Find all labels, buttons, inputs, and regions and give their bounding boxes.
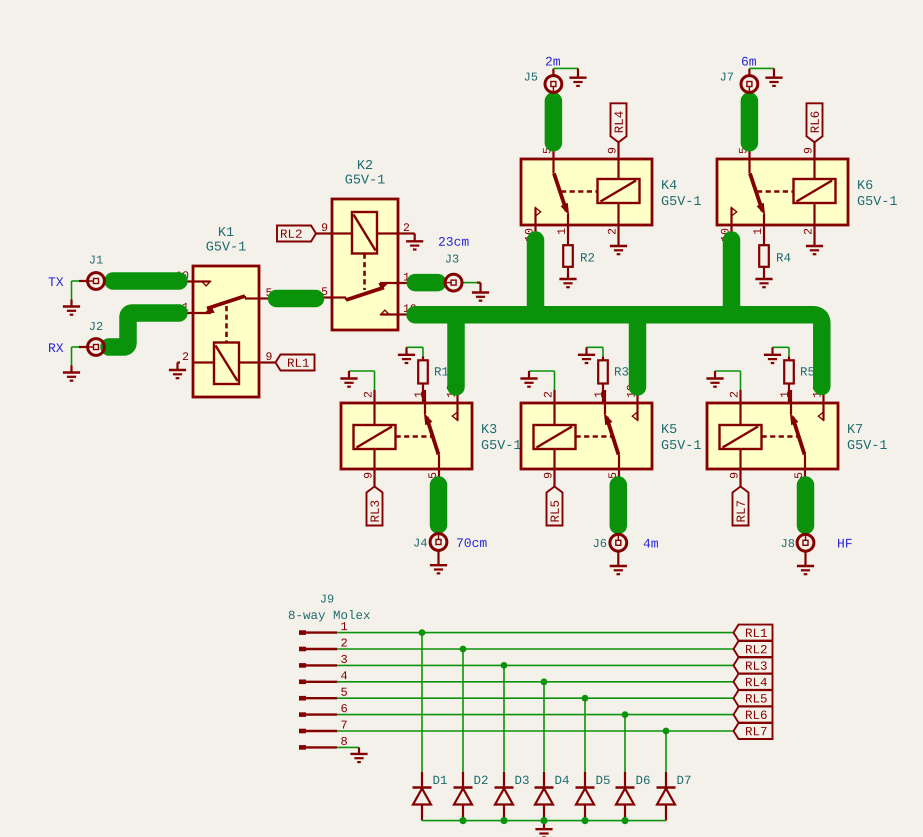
wire from net RL5 down to diode D5: [584, 698, 586, 772]
connector J9 pin 2: [299, 638, 347, 649]
net label 4m: [644, 539, 658, 548]
connector J9 pin 4: [299, 671, 347, 681]
resistor R1: [418, 357, 448, 404]
wire J1 to K1 pin 10 (thick): [113, 272, 179, 290]
wire diode common cathode bus: [422, 820, 666, 822]
net label 2m: [546, 57, 560, 66]
connector J9 pin 1: [299, 622, 347, 632]
junction at D2 on bottom bus: [459, 817, 466, 824]
wire J9 pin 8 to ground: [337, 746, 359, 748]
net label 6m: [742, 57, 756, 66]
ground at diode bus: [535, 821, 552, 837]
connector J4: [430, 534, 447, 551]
connector J9 pin 6: [299, 704, 347, 715]
wire and ground at J5 shield: [553, 68, 586, 86]
connector J5: [545, 76, 562, 93]
relay K1 body (G5V-1): [176, 266, 272, 397]
wire J2 to K1 pin 1 (thick): [109, 313, 179, 347]
wire bus down to K3 pin 10 (thick): [447, 315, 465, 387]
relay K6 body (G5V-1): [717, 146, 848, 241]
net label 23cm: [439, 237, 469, 246]
relay K4 body (G5V-1): [521, 146, 652, 241]
antenna bus: K2 pin 10 across to K7 pin 10 (thick): [415, 315, 822, 387]
wire and ground at R5 top: [764, 347, 789, 363]
ground at K4 pin 2: [610, 238, 627, 254]
label RL2 at K2 pin 9: [277, 226, 319, 242]
net label HF: [838, 539, 852, 548]
resistor R3: [598, 357, 628, 404]
wire bus up to K4 pin 10 (thick): [527, 240, 545, 315]
label RL3 at K3 pin 9: [367, 482, 383, 526]
net label 70cm: [457, 538, 487, 547]
label RL6 at K6 pin 9: [807, 103, 823, 146]
label RL7: [734, 723, 773, 739]
label RL2: [734, 641, 773, 657]
ground at J1 shield: [63, 300, 80, 315]
diode D4: [535, 772, 569, 821]
ground at J6 shield: [610, 552, 627, 574]
label RL6: [734, 707, 773, 723]
connector J7: [741, 76, 758, 93]
wire RX from J2: [72, 347, 88, 366]
junction at D5 on bottom bus: [581, 817, 588, 824]
connector name J4: [414, 539, 427, 547]
relay K7 body (G5V-1): [707, 385, 838, 482]
label RL1 at K1 pin 9: [272, 355, 315, 371]
reference designator K6 and value: [858, 180, 897, 205]
wire and ground at K5 pin 2: [520, 371, 554, 390]
reference designator K3 and value: [482, 424, 521, 449]
wire J5 to K4 pin 5 (thick): [545, 101, 563, 143]
wire and ground at K7 pin 2: [706, 371, 740, 390]
ground at J8 shield: [797, 552, 814, 574]
net label RX: [49, 343, 63, 352]
junction on RL6 wire: [622, 711, 629, 718]
wire J9 pin 2 to RL2: [337, 648, 734, 650]
label RL5: [734, 690, 773, 706]
junction on RL3 wire: [501, 662, 508, 669]
wire from net RL7 down to diode D7: [665, 731, 667, 772]
relay K3 body (G5V-1): [341, 385, 472, 482]
connector name J2: [90, 322, 103, 330]
wire from net RL3 down to diode D3: [503, 665, 505, 772]
junction on RL1 wire: [419, 629, 426, 636]
connector J9 pin 7: [299, 721, 347, 731]
wire J9 pin 3 to RL3: [337, 664, 734, 666]
resistor R4: [759, 238, 790, 272]
diode D6: [616, 772, 650, 821]
connector J9 pin 8: [299, 737, 347, 748]
junction at D6 on bottom bus: [621, 817, 628, 824]
junction at D3 on bottom bus: [500, 817, 507, 824]
connector name J3: [446, 254, 459, 262]
ground below R2: [559, 272, 576, 288]
label RL5 at K5 pin 9: [547, 482, 563, 526]
wire K2 pin 1 to J3 (thick): [415, 274, 437, 292]
wire from net RL6 down to diode D6: [624, 715, 626, 772]
connector J9 value 8-way Molex: [289, 610, 370, 622]
wire and ground at R1 top: [398, 347, 423, 363]
connector J9 name: [321, 594, 334, 602]
wire J9 pin 4 to RL4: [337, 681, 734, 683]
wire TX from J1: [72, 281, 88, 300]
ground at J9 pin 8: [350, 747, 367, 762]
wire and ground at R3 top: [578, 347, 603, 363]
label RL3: [734, 657, 773, 673]
ground below R4: [755, 272, 772, 288]
ground at K2 pin 2: [406, 234, 423, 250]
wire from net RL1 down to diode D1: [421, 633, 423, 772]
junction on RL5 wire: [582, 695, 589, 702]
ground at J4 shield: [430, 551, 447, 573]
connector J1: [88, 273, 105, 290]
connector J6: [610, 534, 627, 551]
diode D5: [576, 772, 610, 821]
wire and ground at K3 pin 2: [340, 371, 374, 390]
wire K7 pin 5 to J8 (thick): [797, 485, 815, 526]
reference designator K1 and value: [206, 227, 245, 251]
wire J7 to K6 pin 5 (thick): [741, 101, 759, 143]
diode D7: [657, 772, 691, 821]
wire J9 pin 5 to RL5: [337, 697, 734, 699]
wire J9 pin 6 to RL6: [337, 714, 734, 716]
connector name J7: [721, 73, 733, 81]
resistor R5: [784, 357, 814, 404]
diode D1: [413, 772, 447, 821]
reference designator K7 and value: [848, 424, 887, 449]
junction on RL4 wire: [541, 678, 548, 685]
wire J9 pin 1 to RL1: [337, 632, 734, 634]
label RL1: [734, 625, 773, 641]
relay K2 body (G5V-1): [319, 199, 416, 330]
wire bus down to K5 pin 10 (thick): [629, 315, 647, 387]
connector J3: [445, 274, 462, 291]
wire and ground at J7 shield: [749, 68, 782, 86]
connector J9 pin 3: [299, 655, 347, 666]
junction on RL2 wire: [460, 646, 467, 653]
ground at J2 shield: [63, 366, 80, 381]
reference designator K2 and value: [345, 160, 384, 184]
diode D2: [454, 772, 488, 821]
label RL4: [734, 674, 773, 690]
connector J9 pin 5: [299, 688, 347, 698]
wire from net RL4 down to diode D4: [543, 682, 545, 772]
connector name J8: [782, 539, 795, 547]
wire K1 pin 5 to K2 pin 5 (thick): [277, 290, 316, 308]
resistor R2: [563, 238, 594, 272]
diode D3: [495, 772, 529, 821]
connector name J5: [525, 73, 538, 81]
wire J9 pin 7 to RL7: [337, 730, 734, 732]
relay K5 body (G5V-1): [521, 385, 652, 482]
wire bus up to K6 pin 10 (thick): [723, 240, 741, 315]
wire and ground at J3 shield: [462, 283, 489, 301]
connector J8: [797, 534, 814, 551]
wire from net RL2 down to diode D2: [462, 649, 464, 772]
reference designator K5 and value: [662, 424, 701, 449]
reference designator K4 and value: [662, 180, 701, 205]
ground at K6 pin 2: [806, 238, 823, 254]
connector name J6: [594, 539, 607, 547]
junction at D4 on bottom bus: [540, 817, 547, 824]
net label TX: [48, 277, 63, 286]
wire K3 pin 5 to J4 (thick): [430, 485, 448, 525]
label RL7 at K7 pin 9: [733, 482, 749, 526]
connector name J1: [90, 256, 103, 264]
ground at K1 pin 2: [169, 363, 186, 379]
label RL4 at K4 pin 9: [611, 103, 627, 146]
connector J2: [88, 339, 105, 356]
junction on RL7 wire: [663, 728, 670, 735]
wire K5 pin 5 to J6 (thick): [610, 485, 628, 526]
